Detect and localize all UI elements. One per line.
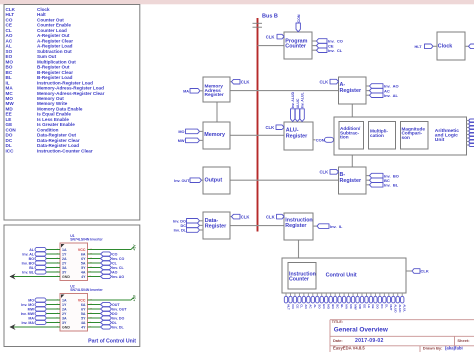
- title block frame lines: [330, 320, 474, 352]
- net label MA at U2 pin 3A: [28, 316, 60, 320]
- sub-block Magnitude Comparison: [401, 122, 429, 150]
- svg-text:MW: MW: [28, 307, 35, 311]
- svg-text:OUT: OUT: [389, 304, 393, 311]
- net label DL at U2 pin 4A: [88, 320, 118, 324]
- svg-text:cation: cation: [370, 133, 384, 138]
- net label Inv. BO: [370, 173, 399, 178]
- svg-text:MD: MD: [358, 304, 362, 309]
- svg-text:DO: DO: [6, 133, 13, 138]
- svg-text:CLK: CLK: [320, 170, 329, 175]
- bus B vertical red bus: [257, 18, 259, 232]
- svg-text:DC: DC: [380, 304, 384, 309]
- pin stubs B-Register right: [366, 176, 370, 185]
- svg-text:EE: EE: [362, 304, 366, 308]
- block Memory Adress Register: [203, 77, 230, 102]
- net label Inv. MA at U2 pin 3Y: [21, 320, 60, 324]
- net label Inv. DO at Data-Register: [173, 219, 203, 224]
- svg-text:4A: 4A: [81, 270, 86, 274]
- control unit bottom pin ALUC: [396, 293, 402, 313]
- svg-text:ALUL: ALUL: [403, 304, 407, 312]
- svg-text:MW: MW: [6, 101, 15, 106]
- block Control Unit: [282, 258, 406, 293]
- block Arithmetic and Logic Unit: [334, 117, 467, 155]
- svg-text:Inv. MO: Inv. MO: [21, 303, 34, 307]
- svg-text:MW: MW: [178, 139, 185, 143]
- block Output: [203, 167, 230, 194]
- svg-text:EasyEDA V4.8.5: EasyEDA V4.8.5: [333, 346, 365, 351]
- svg-text:B-Register Clear: B-Register Clear: [37, 70, 73, 75]
- control unit bottom pin BO: [329, 293, 335, 309]
- pin stubs A-Register right: [366, 86, 370, 95]
- svg-text:CLK: CLK: [266, 34, 275, 39]
- svg-text:AL: AL: [29, 248, 35, 252]
- svg-text:CE: CE: [295, 304, 299, 308]
- svg-text:ALUD: ALUD: [394, 304, 398, 313]
- svg-text:BO: BO: [331, 304, 335, 309]
- svg-text:Inv. AO: Inv. AO: [112, 275, 124, 279]
- svg-text:CL: CL: [112, 261, 118, 265]
- wire Memory Adress Register to A-Register: [230, 90, 339, 92]
- svg-text:TITLE:: TITLE:: [332, 320, 343, 324]
- control unit bottom pin MW: [351, 293, 357, 310]
- svg-text:Inv. DL: Inv. DL: [112, 325, 125, 329]
- svg-text:SO: SO: [318, 304, 322, 309]
- net label DO at U2 pin 5A: [88, 311, 118, 315]
- net label Inv. DL at U2 pin 4Y: [88, 325, 125, 329]
- control unit bottom pin EE: [360, 293, 366, 308]
- svg-text:VCC: VCC: [78, 248, 86, 252]
- wire Output to B-Register: [230, 179, 339, 181]
- net label Inv. DO at U2 pin 5Y: [88, 316, 125, 320]
- svg-text:Clock: Clock: [438, 44, 452, 50]
- control unit bottom pin MC: [347, 293, 353, 310]
- net label BL at U1 pin 3A: [29, 265, 60, 269]
- wire A-Register down to B-Register: [351, 104, 353, 167]
- svg-text:A-Register Load: A-Register Load: [37, 44, 73, 49]
- svg-text:Output: Output: [205, 177, 223, 183]
- svg-text:Instruction-Counter Clear: Instruction-Counter Clear: [37, 148, 93, 153]
- svg-text:BL: BL: [340, 304, 344, 308]
- control unit bottom pin HLT: [284, 293, 290, 310]
- ALU right pin stubs and labels: [467, 119, 474, 147]
- svg-text:MA: MA: [28, 316, 34, 320]
- net label CON above Program Counter: [296, 14, 301, 32]
- svg-text:Memory: Memory: [204, 132, 225, 138]
- net label MO at Memory: [178, 129, 203, 134]
- svg-text:Data-Register Out: Data-Register Out: [37, 133, 77, 138]
- svg-text:Control Unit: Control Unit: [326, 272, 357, 278]
- control unit bottom pin SO: [316, 293, 322, 309]
- svg-text:1Y: 1Y: [62, 303, 67, 307]
- svg-text:GND: GND: [62, 275, 70, 279]
- net label Inv. CL at U1 pin 5Y: [88, 265, 125, 269]
- block B-Register: [339, 167, 367, 194]
- svg-text:Counter: Counter: [289, 277, 309, 283]
- svg-text:2017-09-02: 2017-09-02: [355, 338, 384, 344]
- wire Data-Register to Instruction Register: [230, 225, 284, 227]
- svg-text:HLT: HLT: [286, 304, 290, 310]
- svg-text:DO: DO: [112, 312, 118, 316]
- svg-text:Counter: Counter: [285, 44, 307, 50]
- svg-text:Part of Control Unit: Part of Control Unit: [88, 338, 136, 344]
- svg-text:AO: AO: [304, 304, 308, 309]
- svg-text:ALUC: ALUC: [398, 304, 402, 313]
- net label CLK at Control Unit right: [406, 269, 429, 274]
- svg-text:6A: 6A: [81, 303, 86, 307]
- svg-text:Inv. MW: Inv. MW: [21, 312, 35, 316]
- svg-text:Halt: Halt: [37, 12, 46, 17]
- IC U1 SN74LS04N hex inverter: [57, 234, 104, 281]
- svg-text:son: son: [402, 135, 410, 140]
- svg-text:MA: MA: [183, 89, 189, 93]
- title block EasyEDA row: [333, 346, 463, 351]
- svg-text:2Y: 2Y: [62, 261, 67, 265]
- svg-text:CLK: CLK: [266, 214, 275, 219]
- control unit bottom pin DL: [383, 293, 389, 308]
- net label CLK at A-Register: [320, 79, 339, 84]
- net label ALUC above ALU-Register: [295, 98, 300, 121]
- svg-text:AO: AO: [112, 270, 118, 274]
- svg-text:GE: GE: [371, 304, 375, 308]
- sub-block Addition/Subtraction: [339, 122, 364, 150]
- svg-text:AL: AL: [313, 304, 317, 308]
- svg-text:MA: MA: [6, 86, 14, 91]
- block ALU-Register: [284, 122, 313, 150]
- svg-text:Inv. AL: Inv. AL: [22, 252, 34, 256]
- IC U2 SN74LS04N hex inverter: [57, 284, 104, 331]
- control unit bottom pin MO: [325, 293, 331, 310]
- net label MW at Memory: [178, 138, 203, 143]
- svg-text:Register: Register: [205, 224, 227, 230]
- svg-text:Inv. OUT: Inv. OUT: [112, 307, 127, 311]
- net label Inv. ALUL above ALU-Register: [300, 91, 305, 121]
- net label CLK at Clock output: [465, 44, 474, 49]
- pink top margin strip: [0, 0, 474, 4]
- net label CLK at B-Register: [320, 170, 339, 175]
- net label Inv. MO at U2 pin 1Y: [21, 302, 60, 306]
- svg-text:6Y: 6Y: [81, 307, 86, 311]
- net label AL at U1 pin 1A: [29, 247, 60, 251]
- svg-text:GND: GND: [62, 325, 70, 329]
- block Memory: [203, 122, 230, 149]
- svg-text:CON: CON: [316, 138, 325, 143]
- svg-text:MC: MC: [349, 304, 353, 309]
- net label Inv. BL: [370, 183, 399, 188]
- svg-text:Inv. CL: Inv. CL: [328, 48, 343, 53]
- part of control unit box frame: [4, 225, 140, 347]
- net label CE: [317, 43, 334, 48]
- svg-text:3Y: 3Y: [62, 321, 67, 325]
- svg-text:1Y: 1Y: [62, 252, 67, 256]
- svg-text:SN74LS04N Inverter: SN74LS04N Inverter: [70, 288, 103, 292]
- control unit bottom pin AC: [307, 293, 313, 309]
- svg-text:Register: Register: [285, 223, 306, 229]
- control unit bottom pin DC: [378, 293, 384, 309]
- wire Memory to ALU-Register: [230, 134, 284, 136]
- +5V power flag at U1 VCC pin: [88, 244, 137, 251]
- control unit bottom pin BL: [338, 293, 344, 308]
- svg-text:DL: DL: [385, 304, 389, 308]
- net label CLK at Instruction Register: [266, 214, 284, 219]
- svg-text:HLT: HLT: [415, 45, 423, 49]
- svg-text:Inv. ALUL: Inv. ALUL: [301, 91, 305, 108]
- net label Inv. AL at U1 pin 1Y: [22, 252, 60, 256]
- block Program Counter: [284, 32, 312, 59]
- net label Inv. AO at U1 pin 4Y: [88, 274, 125, 278]
- svg-text:4Y: 4Y: [81, 325, 86, 329]
- svg-text:CLK: CLK: [241, 214, 250, 219]
- net label CL at U1 pin 5A: [88, 261, 118, 265]
- +5V power flag at U2 VCC pin: [88, 294, 137, 301]
- svg-text:Inv. CO: Inv. CO: [112, 257, 125, 261]
- svg-text:BO: BO: [29, 257, 35, 261]
- control unit bottom pin OUT: [387, 293, 393, 311]
- svg-text:CLK: CLK: [320, 79, 329, 84]
- svg-text:(aka)fabi: (aka)fabi: [445, 346, 463, 351]
- svg-text:AL: AL: [6, 44, 12, 49]
- net label Inv. CO at U1 pin 6Y: [88, 256, 125, 260]
- net label Inv. IL at Instruction Register: [313, 224, 343, 229]
- control unit bottom pin MD: [356, 293, 362, 310]
- svg-text:EO: EO: [6, 54, 13, 59]
- net label Inv. BO at U1 pin 2Y: [22, 261, 60, 265]
- svg-text:MO: MO: [28, 298, 34, 302]
- svg-text:tion: tion: [340, 135, 349, 140]
- control unit bottom pin CL: [298, 293, 304, 308]
- svg-text:LE: LE: [6, 117, 12, 122]
- svg-text:+5V: +5V: [132, 294, 136, 301]
- net label AO at U1 pin 4A: [88, 270, 118, 274]
- net label Inv. OUT at Output: [174, 178, 203, 183]
- net label CLK at Program Counter: [266, 34, 284, 39]
- svg-text:SN74LS04N Inverter: SN74LS04N Inverter: [70, 238, 103, 242]
- svg-text:Register: Register: [340, 178, 362, 184]
- svg-text:CLK: CLK: [421, 269, 429, 274]
- net label Inv. AO: [370, 84, 399, 89]
- svg-text:MW: MW: [353, 304, 357, 309]
- svg-text:2A: 2A: [62, 307, 67, 311]
- svg-text:CLK: CLK: [266, 125, 275, 130]
- svg-text:MO: MO: [178, 130, 184, 134]
- net label DC at Data-Register: [181, 223, 203, 228]
- svg-text:Date:: Date:: [333, 338, 343, 343]
- svg-text:DC: DC: [181, 224, 187, 228]
- wire bus to Program Counter: [258, 45, 285, 47]
- svg-text:Register: Register: [286, 133, 308, 139]
- net label CON at ALU-Register right: [313, 137, 334, 142]
- control unit bottom pin EO: [320, 293, 326, 309]
- svg-text:BC: BC: [6, 70, 13, 75]
- svg-text:CL: CL: [300, 304, 304, 308]
- net label CLK at Data-Register: [230, 214, 249, 219]
- svg-text:LE: LE: [367, 304, 371, 308]
- svg-text:5Y: 5Y: [81, 266, 86, 270]
- svg-text:Inv. BL: Inv. BL: [384, 183, 399, 188]
- control unit bottom pin MA: [342, 293, 348, 310]
- block A-Register: [339, 77, 367, 104]
- svg-text:6Y: 6Y: [81, 257, 86, 261]
- title block Date row: [333, 338, 470, 344]
- control unit bottom pin BC: [333, 293, 339, 309]
- svg-text:Is Less Enable: Is Less Enable: [37, 117, 69, 122]
- svg-text:AC: AC: [309, 304, 313, 309]
- net label CLK at MAR: [230, 79, 249, 84]
- net label Inv. BL at U1 pin 3Y: [22, 270, 60, 274]
- net label AC: [370, 88, 390, 93]
- net label OUT at U2 pin 6A: [88, 302, 121, 306]
- svg-text:DL: DL: [112, 321, 118, 325]
- svg-text:OUT: OUT: [112, 303, 120, 307]
- svg-text:Sum Out: Sum Out: [37, 54, 57, 59]
- svg-text:CL: CL: [6, 28, 12, 33]
- svg-text:MA: MA: [344, 304, 348, 309]
- svg-text:VCC: VCC: [78, 298, 86, 302]
- svg-text:Inv. CL: Inv. CL: [112, 266, 125, 270]
- svg-text:4A: 4A: [81, 321, 86, 325]
- net label CLK at ALU-Register: [266, 125, 285, 130]
- svg-text:1A: 1A: [62, 298, 67, 302]
- svg-text:CO: CO: [112, 252, 118, 256]
- svg-text:Memory Write: Memory Write: [37, 101, 68, 106]
- svg-text:HLT: HLT: [6, 12, 15, 17]
- net label MW at U2 pin 2A: [28, 307, 60, 311]
- svg-text:2A: 2A: [62, 257, 67, 261]
- net label Inv. ALUD above ALU-Register: [291, 91, 296, 121]
- net label Inv. CO: [317, 39, 343, 44]
- svg-text:Unit: Unit: [435, 137, 445, 143]
- svg-text:2Y: 2Y: [62, 312, 67, 316]
- block Clock: [437, 32, 465, 60]
- svg-text:MO: MO: [327, 304, 331, 309]
- pin stubs Program Counter right: [312, 41, 317, 50]
- control unit bottom pin AO: [302, 293, 308, 309]
- wire MAR down to Memory: [216, 102, 218, 122]
- control unit bottom pin DO: [374, 293, 380, 309]
- svg-text:3A: 3A: [62, 266, 67, 270]
- svg-text:1A: 1A: [62, 248, 67, 252]
- control unit bottom pin LE: [365, 293, 371, 308]
- svg-text:Drawn By:: Drawn By:: [423, 346, 443, 351]
- svg-text:Sheet:: Sheet:: [457, 338, 469, 343]
- control unit bottom pin ALUD: [392, 293, 398, 313]
- svg-text:6A: 6A: [81, 252, 86, 256]
- svg-text:Register: Register: [205, 92, 224, 98]
- svg-text:Inv. BO: Inv. BO: [22, 261, 35, 265]
- ground wire at U2 GND pin: [10, 324, 61, 330]
- net label BO at U1 pin 2A: [29, 256, 60, 260]
- svg-text:Bus B: Bus B: [262, 14, 278, 20]
- net label HLT at Clock: [415, 44, 438, 49]
- net label BC: [370, 178, 390, 183]
- svg-text:DO: DO: [376, 304, 380, 309]
- svg-text:Inv. ALUD: Inv. ALUD: [291, 91, 295, 108]
- svg-text:ALUC: ALUC: [296, 98, 300, 108]
- sub-block Instruction Counter: [288, 263, 316, 290]
- legend box frame: [4, 5, 140, 221]
- svg-text:Register: Register: [340, 88, 362, 94]
- block Instruction Register: [284, 213, 313, 240]
- svg-text:Counter Load: Counter Load: [37, 28, 67, 33]
- bus width tick marks: [253, 22, 263, 24]
- svg-text:Inv. AL: Inv. AL: [384, 93, 399, 98]
- ground wire at U1 GND pin: [10, 274, 61, 280]
- svg-text:BC: BC: [335, 304, 339, 309]
- svg-text:Memory-Adress-Register Load: Memory-Adress-Register Load: [37, 86, 104, 91]
- svg-text:Inv. MA: Inv. MA: [21, 321, 34, 325]
- net label Inv. DL at Data-Register: [174, 228, 203, 233]
- sub-block Multiplication: [369, 122, 396, 150]
- svg-text:BL: BL: [29, 266, 35, 270]
- control unit bottom pin CO: [289, 293, 295, 309]
- net label Inv. AL: [370, 93, 399, 98]
- net label CO at U1 pin 6A: [88, 252, 118, 256]
- svg-text:Inv. DL: Inv. DL: [174, 229, 187, 233]
- control unit bottom pin ALUL: [401, 293, 407, 312]
- svg-text:3A: 3A: [62, 316, 67, 320]
- svg-text:Inv. DO: Inv. DO: [173, 219, 186, 223]
- net label Inv. CL: [317, 48, 343, 53]
- wire Instruction Register down to Control Unit: [298, 240, 300, 258]
- svg-text:CON: CON: [297, 14, 301, 22]
- net label Inv. OUT at U2 pin 6Y: [88, 307, 128, 311]
- svg-text:4Y: 4Y: [81, 275, 86, 279]
- svg-text:CLK: CLK: [241, 79, 250, 84]
- block Data-Register: [203, 212, 230, 239]
- svg-text:Inv. BL: Inv. BL: [22, 270, 35, 274]
- svg-text:Inv. DO: Inv. DO: [112, 316, 125, 320]
- svg-text:Inv. OUT: Inv. OUT: [174, 179, 190, 183]
- svg-text:5A: 5A: [81, 261, 86, 265]
- control unit bottom pin GE: [369, 293, 375, 309]
- svg-text:5A: 5A: [81, 312, 86, 316]
- net label MA at MAR: [183, 89, 203, 94]
- svg-text:General Overview: General Overview: [334, 327, 388, 334]
- svg-text:ICC: ICC: [6, 148, 15, 153]
- net label MO at U2 pin 1A: [28, 298, 60, 302]
- control unit bottom pin AL: [311, 293, 317, 308]
- svg-text:Inv. IL: Inv. IL: [330, 224, 343, 229]
- svg-text:CO: CO: [291, 304, 295, 309]
- net label Inv. MW at U2 pin 2Y: [21, 311, 60, 315]
- svg-text:5Y: 5Y: [81, 316, 86, 320]
- svg-text:3Y: 3Y: [62, 270, 67, 274]
- control unit bottom pin CE: [293, 293, 299, 308]
- svg-text:+5V: +5V: [132, 244, 136, 251]
- svg-text:EO: EO: [322, 304, 326, 309]
